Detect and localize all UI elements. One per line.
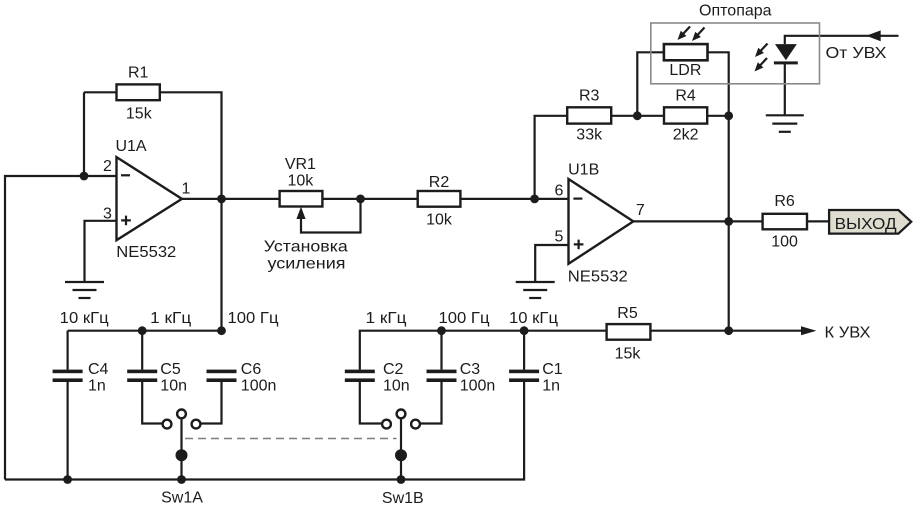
svg-text:NE5532: NE5532 xyxy=(568,269,628,286)
svg-text:К УВХ: К УВХ xyxy=(825,324,871,341)
wire R5 right lead to K UVH arrow xyxy=(650,330,803,332)
switch Sw1B contacts xyxy=(382,410,420,429)
svg-text:Оптопара: Оптопара xyxy=(699,3,772,20)
svg-text:5: 5 xyxy=(555,229,564,246)
wire U1B output xyxy=(633,220,762,222)
wire U1A output xyxy=(182,198,280,200)
svg-text:C2: C2 xyxy=(383,361,404,378)
svg-text:10n: 10n xyxy=(383,378,410,395)
wire C6 bottom lead to Sw1A right contact xyxy=(200,382,221,424)
svg-text:100 Гц: 100 Гц xyxy=(228,310,279,327)
resistor VR1 body xyxy=(280,191,323,207)
svg-text:100n: 100n xyxy=(241,378,277,395)
svg-text:C1: C1 xyxy=(542,361,563,378)
svg-text:100 Гц: 100 Гц xyxy=(439,310,490,327)
LED cathode bar xyxy=(774,61,798,64)
arrowhead K UVH xyxy=(801,326,816,335)
svg-text:ВЫХОД: ВЫХОД xyxy=(835,216,897,233)
U1A plus xyxy=(121,216,131,226)
svg-text:NE5532: NE5532 xyxy=(116,244,176,261)
capacitor C6 plates xyxy=(207,370,237,382)
wire R3 to R4 xyxy=(611,115,664,117)
node VR1 wiper xyxy=(356,195,365,204)
wire C1 top lead xyxy=(523,331,525,370)
LED triangle xyxy=(775,44,797,60)
svg-text:LDR: LDR xyxy=(669,62,701,79)
op-amp U1A xyxy=(117,157,182,240)
node output xyxy=(724,217,733,226)
svg-text:1 кГц: 1 кГц xyxy=(150,310,191,327)
wire right capacitor bus with C2 top lead xyxy=(360,331,607,370)
wire feedback left vertical + pin2 row xyxy=(5,176,117,480)
svg-text:R5: R5 xyxy=(617,305,638,322)
svg-text:6: 6 xyxy=(555,183,564,200)
wire R4 right lead xyxy=(707,115,729,117)
svg-text:100n: 100n xyxy=(460,378,496,395)
wire Sw1A arm to bottom bus xyxy=(180,418,182,479)
wire C4 bottom lead xyxy=(66,382,68,480)
node Sw1B bottom xyxy=(397,475,406,484)
resistor R3 xyxy=(567,107,611,123)
svg-text:3: 3 xyxy=(103,206,112,223)
svg-text:33k: 33k xyxy=(576,127,603,144)
resistor R6 xyxy=(763,214,807,230)
VR1 wiper arrow xyxy=(296,207,305,219)
capacitor C5 plates xyxy=(127,370,157,382)
wire R3 left vertical xyxy=(535,116,568,199)
wire Sw1B arm to bottom bus xyxy=(400,418,402,479)
U1A minus xyxy=(121,174,130,176)
node R3-LDR xyxy=(633,111,642,120)
svg-text:От УВХ: От УВХ xyxy=(826,45,887,62)
output tag VYHOD xyxy=(829,210,911,234)
svg-text:10k: 10k xyxy=(426,212,453,229)
U1B minus xyxy=(573,198,582,200)
wire R1 left lead xyxy=(84,91,117,93)
svg-text:C6: C6 xyxy=(241,361,262,378)
wire C5 bottom lead to Sw1A left contact xyxy=(142,382,162,424)
svg-text:10 кГц: 10 кГц xyxy=(60,310,109,327)
svg-text:10k: 10k xyxy=(288,173,315,190)
svg-text:15k: 15k xyxy=(126,106,153,123)
LED light arrow 1 xyxy=(755,44,768,58)
dashed coupling line Sw1A-Sw1B xyxy=(185,438,397,440)
node C1 bus xyxy=(520,326,529,335)
node C3 bus xyxy=(437,326,446,335)
ground LED xyxy=(766,115,804,132)
svg-text:7: 7 xyxy=(636,202,645,219)
wire left capacitor bus xyxy=(68,330,222,332)
svg-text:1n: 1n xyxy=(542,378,560,395)
wire R1 left vertical xyxy=(83,92,85,176)
svg-text:усиления: усиления xyxy=(268,255,346,272)
resistor R5 xyxy=(607,324,651,340)
svg-text:Sw1B: Sw1B xyxy=(382,490,424,507)
LED light arrow 2 xyxy=(755,58,768,72)
svg-text:R6: R6 xyxy=(774,193,795,210)
wire C5 top lead xyxy=(141,331,143,370)
node R4 right xyxy=(724,111,733,120)
wire U1A pin3 to ground xyxy=(85,221,117,282)
svg-text:10 кГц: 10 кГц xyxy=(509,310,558,327)
svg-text:Sw1A: Sw1A xyxy=(161,490,203,507)
wire C2 bottom lead to Sw1B left contact xyxy=(360,382,382,424)
wire R1 right lead down to 100Hz node xyxy=(160,92,222,330)
wire U1B pin5 to ground xyxy=(535,245,568,282)
svg-text:2k2: 2k2 xyxy=(673,127,699,144)
node C4 bottom xyxy=(63,475,72,484)
svg-text:C4: C4 xyxy=(88,361,109,378)
node pin2 xyxy=(80,172,89,181)
svg-text:R1: R1 xyxy=(128,65,149,82)
svg-text:1n: 1n xyxy=(88,378,106,395)
switch Sw1A contacts xyxy=(163,410,201,429)
wire bottom bus xyxy=(5,382,524,480)
svg-text:15k: 15k xyxy=(615,346,642,363)
wire LDR left lead xyxy=(637,52,664,116)
wire LDR right lead and main right vertical xyxy=(708,52,729,330)
wire C3 bottom lead to Sw1B right contact xyxy=(420,382,441,424)
node C5 bus xyxy=(138,326,147,335)
svg-text:1 кГц: 1 кГц xyxy=(366,310,407,327)
wire R2 right lead to U1B pin6 xyxy=(460,198,568,200)
capacitor C1 plates xyxy=(509,370,539,382)
resistor R1 xyxy=(117,84,160,100)
capacitor C3 plates xyxy=(427,370,457,382)
svg-text:Установка: Установка xyxy=(264,238,348,255)
LDR light arrow 2 xyxy=(692,28,705,42)
svg-text:R3: R3 xyxy=(579,88,600,105)
svg-text:VR1: VR1 xyxy=(285,156,316,173)
wire LED anode horizontal from OT UVH xyxy=(785,36,899,44)
node Sw1A bottom xyxy=(177,475,186,484)
wire LED cathode to ground xyxy=(784,64,786,116)
svg-text:U1A: U1A xyxy=(115,138,146,155)
svg-text:U1B: U1B xyxy=(568,162,599,179)
svg-text:1: 1 xyxy=(182,181,191,198)
svg-text:C3: C3 xyxy=(460,361,481,378)
switch Sw1B pivot dot xyxy=(395,449,407,461)
LDR light arrow 1 xyxy=(678,27,691,41)
resistor R2 xyxy=(418,191,461,207)
op-amp U1B xyxy=(569,179,634,264)
capacitor C4 plates xyxy=(53,370,83,382)
wire VR1 wiper loop xyxy=(301,199,361,233)
wire VR1 right lead xyxy=(322,198,417,200)
svg-text:100: 100 xyxy=(771,234,798,251)
capacitor C2 plates xyxy=(345,370,375,382)
LDR body xyxy=(664,44,708,60)
svg-text:R4: R4 xyxy=(675,88,696,105)
arrowhead OT UVH xyxy=(866,30,881,41)
node U1A output xyxy=(217,195,226,204)
switch Sw1A pivot dot xyxy=(176,449,188,461)
svg-text:2: 2 xyxy=(103,158,112,175)
U1B plus xyxy=(574,240,584,250)
svg-text:10n: 10n xyxy=(160,378,187,395)
svg-text:R2: R2 xyxy=(429,174,450,191)
wire R6 right lead xyxy=(807,220,829,222)
resistor R4 xyxy=(664,107,707,123)
node C6 bus xyxy=(217,326,226,335)
optocoupler box xyxy=(651,23,820,84)
svg-text:C5: C5 xyxy=(160,361,181,378)
node U1B pin6 xyxy=(530,195,539,204)
ground U1A xyxy=(65,282,104,298)
wire C3 top lead xyxy=(440,331,442,370)
ground U1B xyxy=(516,282,555,298)
node R5 xyxy=(724,326,733,335)
wire C4 top lead xyxy=(66,331,68,370)
